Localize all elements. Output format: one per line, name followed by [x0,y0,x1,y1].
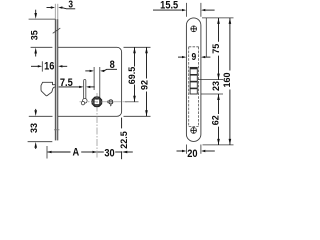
dim 8 [85,60,117,98]
dim 62 [211,94,221,145]
faceplate side view (vertical bar) [55,4,58,141]
tick mark on faceplate lower [54,129,59,131]
svg-text:16: 16 [44,61,55,73]
svg-text:9: 9 [191,51,196,62]
ext lines right view [198,18,234,145]
dim 30 (bottom) [97,148,132,160]
dim 22.5 [119,118,129,160]
vertical centerline through follower [96,93,98,158]
svg-text:23: 23 [211,81,221,91]
svg-text:A: A [73,147,80,159]
dim 92 [124,47,151,116]
bottom screw [190,127,197,134]
svg-text:33: 33 [29,123,39,133]
dim 3 (top) [47,0,76,10]
svg-text:160: 160 [222,72,232,87]
svg-text:20: 20 [187,149,198,160]
svg-text:92: 92 [139,80,149,90]
dashed mortise cup outline [189,47,199,127]
svg-text:8: 8 [110,60,115,72]
pear-shaped adjustment hole [81,80,87,105]
horizontal centerline [80,101,128,103]
svg-text:35: 35 [30,30,40,40]
dim 33 (lower left) [28,109,53,149]
break mark on faceplate [53,28,61,33]
hook bolt [41,82,55,95]
dim 160 [222,18,232,145]
svg-text:69.5: 69.5 [127,67,137,85]
small hole right of follower [108,100,113,107]
svg-text:3: 3 [68,0,73,10]
dim 35 (upper left) [29,10,56,57]
dim 75 [211,18,221,80]
svg-text:7.5: 7.5 [60,77,73,89]
lock case body outline [58,47,122,116]
dim 23 [211,81,221,91]
svg-text:62: 62 [211,115,221,125]
hook slot with rungs [190,67,197,94]
dim A (bottom) [47,146,97,159]
dim 15.5 (top) [153,0,215,17]
svg-text:15.5: 15.5 [160,0,178,12]
dim 9 (slot width) [178,18,210,62]
spindle follower [92,96,103,107]
svg-text:22.5: 22.5 [119,131,129,149]
dim 7.5 [59,77,95,89]
svg-text:75: 75 [211,44,221,54]
dim 16 [31,61,67,73]
svg-text:30: 30 [104,148,115,160]
top screw [190,26,197,33]
dim 20 (bottom) [177,145,215,161]
faceplate outline (stadium) [186,18,201,142]
dim 69.5 (right of case) [124,47,151,102]
